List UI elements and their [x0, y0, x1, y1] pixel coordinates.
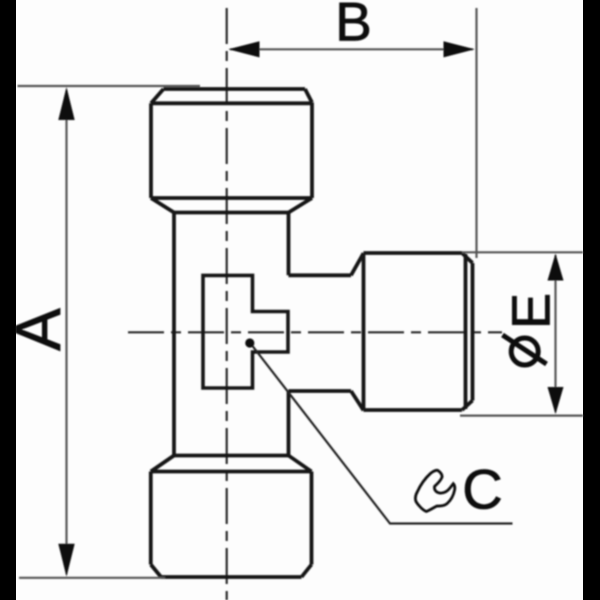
svg-text:C: C [462, 458, 502, 521]
svg-text:E: E [502, 293, 562, 329]
wrench icon [415, 470, 454, 511]
diameter symbol circle [511, 338, 538, 365]
dimension B extension line [475, 8, 477, 258]
dimension A extension line top [18, 85, 201, 87]
dimension B arrowhead left [228, 41, 259, 57]
bottom hex nut of tee [151, 456, 312, 578]
dimension E extension line top [462, 251, 583, 253]
dimension A extension line bottom [19, 577, 165, 579]
horizontal centerline [128, 331, 502, 333]
leader dot [245, 338, 254, 347]
dimension A arrowhead down [58, 544, 74, 577]
dimension A line [65, 90, 67, 574]
leader line to C [253, 346, 513, 524]
right branch [289, 253, 364, 410]
diameter symbol slash [503, 335, 547, 364]
dimension A arrowhead up [58, 87, 74, 120]
dimension B arrowhead right [444, 41, 475, 57]
dimension E extension line bottom [460, 415, 583, 417]
top hex nut of tee [151, 89, 312, 213]
dimension E arrowhead down [548, 387, 564, 414]
svg-text:A: A [2, 308, 74, 351]
left black bar [0, 0, 16, 600]
svg-text:B: B [335, 0, 372, 53]
internal bore outline (T shape) [203, 275, 288, 388]
right black bar [583, 0, 600, 600]
vertical centerline [226, 8, 228, 600]
dimension E line [554, 255, 556, 412]
dimension E arrowhead up [548, 254, 564, 281]
dimension B line [230, 48, 473, 50]
right branch nut [364, 253, 473, 410]
tee body [174, 213, 289, 456]
